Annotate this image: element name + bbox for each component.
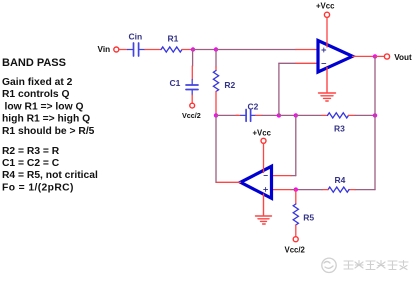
svg-text:R1 controls Q: R1 controls Q bbox=[2, 89, 70, 100]
wire U2 output up to node C bbox=[215, 115, 217, 182]
wire node B down to R2 bbox=[215, 50, 217, 68]
svg-text:R2: R2 bbox=[224, 80, 235, 90]
wire node E down to U2 inverting input bbox=[291, 115, 296, 175]
pin U1 noninverting input bbox=[296, 49, 318, 51]
wire C2 to node D bbox=[262, 114, 279, 116]
watermark logo bbox=[322, 258, 336, 272]
wire +Vcc to U1 bbox=[326, 18, 328, 47]
wire Vin to Cin bbox=[119, 49, 128, 51]
wire node D up to U1 inverting input bbox=[279, 63, 296, 115]
capacitor C2 bbox=[241, 110, 256, 122]
pin C1 top bbox=[191, 66, 193, 80]
svg-text:R4 = R5, not critical: R4 = R5, not critical bbox=[2, 170, 98, 181]
wire node B to op-amp U1 pin bbox=[216, 49, 296, 51]
capacitor C1 bbox=[186, 80, 198, 96]
U1 plus mark bbox=[322, 48, 326, 52]
pin C2 left bbox=[236, 114, 241, 116]
pin U2 noninverting input bbox=[272, 189, 292, 191]
svg-text:Vcc/2: Vcc/2 bbox=[182, 111, 201, 120]
svg-text:Vout: Vout bbox=[394, 53, 412, 62]
svg-text:Cin: Cin bbox=[129, 32, 143, 42]
svg-text:Vin: Vin bbox=[98, 45, 111, 54]
svg-text:BAND PASS: BAND PASS bbox=[2, 57, 66, 69]
resistor R5 bbox=[293, 204, 298, 225]
wire node G to Vout bbox=[375, 55, 384, 57]
svg-text:high R1 => high Q: high R1 => high Q bbox=[2, 114, 90, 125]
svg-text:R4: R4 bbox=[335, 175, 346, 185]
svg-text:Fo = 1/(2pRC): Fo = 1/(2pRC) bbox=[2, 182, 74, 193]
pin U1 output bbox=[353, 55, 376, 57]
node B junction bbox=[214, 47, 218, 51]
svg-text:R1: R1 bbox=[168, 34, 179, 44]
node H junction bbox=[294, 187, 298, 191]
svg-text:C1 = C2 = C: C1 = C2 = C bbox=[2, 158, 60, 169]
node G junction (output) bbox=[373, 54, 377, 58]
svg-text:C2: C2 bbox=[248, 102, 259, 112]
pin U2 output bbox=[216, 181, 241, 183]
svg-text:R5: R5 bbox=[303, 213, 314, 223]
node A junction bbox=[191, 47, 195, 51]
wire R4 to node H bbox=[296, 189, 322, 191]
terminal Vin bbox=[114, 47, 119, 52]
svg-text:C1: C1 bbox=[170, 78, 181, 88]
pin R4 left bbox=[322, 189, 328, 191]
pin R2 bottom to node C bbox=[215, 92, 217, 116]
resistor R3 bbox=[328, 113, 349, 118]
watermark text bbox=[344, 261, 408, 270]
capacitor Cin bbox=[128, 43, 146, 56]
ground U2 bbox=[256, 194, 272, 224]
svg-text:+Vcc: +Vcc bbox=[253, 129, 272, 138]
pin R3 right bbox=[349, 114, 356, 116]
resistor R1 bbox=[161, 47, 182, 52]
wire node E to R3 bbox=[296, 114, 322, 116]
svg-text:R2 = R3 = R: R2 = R3 = R bbox=[2, 146, 60, 157]
node D junction bbox=[277, 113, 281, 117]
wire node A to node B bbox=[193, 49, 216, 51]
terminal Vout bbox=[384, 54, 389, 59]
svg-text:+Vcc: +Vcc bbox=[316, 2, 335, 11]
terminal Vcc/2 bottom bbox=[293, 237, 298, 242]
U2 plus mark bbox=[264, 187, 268, 191]
node E junction bbox=[294, 113, 298, 117]
op-amp U2 bbox=[241, 166, 272, 198]
U2 minus mark bbox=[264, 175, 267, 177]
node F junction bbox=[373, 113, 377, 117]
wire R3 to node F bbox=[355, 114, 375, 116]
svg-text:low R1 => low Q: low R1 => low Q bbox=[5, 101, 84, 112]
pin R5 top bbox=[295, 190, 297, 204]
svg-text:R1 should be > R/5: R1 should be > R/5 bbox=[2, 126, 95, 137]
wire node H to U2 pin bbox=[291, 189, 296, 191]
wire R1 to node A bbox=[182, 49, 193, 51]
ground U1 bbox=[319, 68, 336, 101]
pin U1 inverting input bbox=[296, 62, 318, 64]
svg-text:Gain fixed at 2: Gain fixed at 2 bbox=[2, 77, 73, 88]
svg-text:R3: R3 bbox=[334, 123, 345, 133]
svg-text:Vcc/2: Vcc/2 bbox=[285, 246, 306, 255]
terminal +Vcc top bbox=[324, 12, 329, 17]
pin U2 inverting input bbox=[272, 175, 292, 177]
wire node C to C2 bbox=[216, 114, 238, 116]
terminal +Vcc mid bbox=[261, 138, 266, 143]
wire +Vcc to U2 bbox=[263, 144, 265, 173]
node C junction bbox=[214, 113, 218, 117]
wire right bus node G to node F to R4 corner bbox=[355, 56, 375, 189]
wire node A down to C1 bbox=[192, 50, 194, 67]
wire Cin to R1 bbox=[145, 49, 161, 51]
wire node D to node E bbox=[279, 114, 296, 116]
left note text block bbox=[2, 57, 98, 193]
U1 minus mark bbox=[322, 62, 326, 64]
resistor R2 bbox=[213, 71, 218, 92]
pin C1 bottom bbox=[191, 95, 193, 103]
terminal Vcc/2 left bbox=[190, 103, 195, 108]
pin R2 top bbox=[215, 67, 217, 71]
pin R3 left bbox=[322, 114, 328, 116]
resistor R4 bbox=[328, 187, 349, 192]
pin C2 right bbox=[256, 114, 262, 116]
op-amp U1 bbox=[318, 41, 353, 73]
pin R4 right bbox=[349, 189, 355, 191]
pin R5 bottom bbox=[295, 225, 297, 237]
